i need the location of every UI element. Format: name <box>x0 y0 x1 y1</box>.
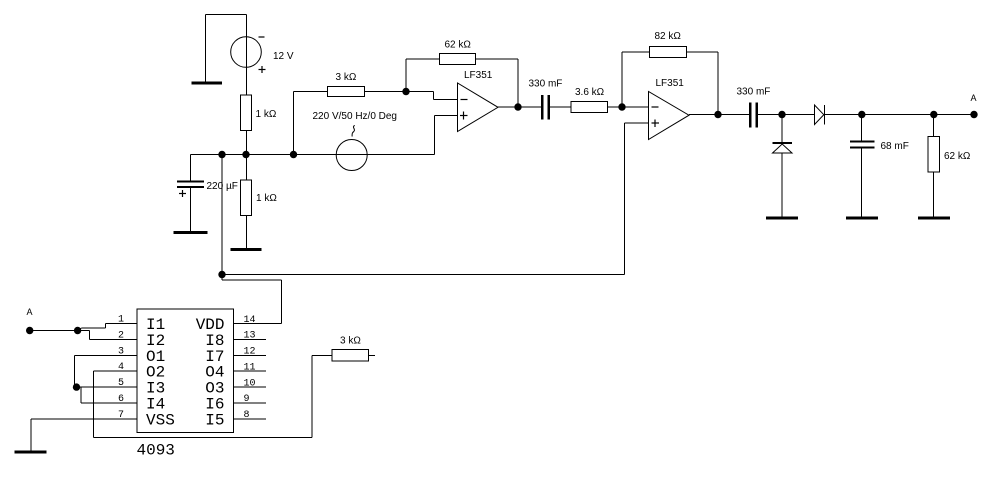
wire up from main node to 3k resistor <box>294 92 328 155</box>
svg-text:62 kΩ: 62 kΩ <box>445 40 472 51</box>
zener D1 cathode bar <box>773 142 793 144</box>
op-amp U2 LF351 triangle <box>649 92 690 140</box>
wire R7 bottom leg <box>933 172 935 217</box>
wire feedback2 right-down to output <box>687 52 719 115</box>
wire C3 to diode <box>758 114 815 116</box>
node N4 dot <box>714 111 721 118</box>
pin stub 12 <box>234 354 267 356</box>
ground G3 <box>231 248 262 251</box>
node A terminal dot <box>970 111 977 118</box>
ground G8 <box>15 451 47 454</box>
resistor R3 3k box <box>328 87 365 97</box>
svg-text:12 V: 12 V <box>273 51 294 62</box>
svg-text:I5: I5 <box>205 411 224 429</box>
svg-text:9: 9 <box>244 394 250 405</box>
svg-text:5: 5 <box>118 378 124 389</box>
pin stub 9 <box>234 402 267 404</box>
wire feedback1 right-down to output <box>476 59 519 107</box>
node dot lower junction <box>218 271 225 278</box>
svg-text:2: 2 <box>118 330 124 341</box>
C1 plus sign <box>179 190 186 197</box>
wire junction to pin1 <box>78 324 137 331</box>
ground G6 <box>846 217 878 220</box>
svg-text:10: 10 <box>244 378 256 389</box>
svg-text:LF351: LF351 <box>656 78 685 89</box>
svg-text:3.6 kΩ: 3.6 kΩ <box>575 87 605 98</box>
svg-text:4093: 4093 <box>137 442 175 460</box>
wire C2 to R5 <box>550 106 571 108</box>
wire from top into 12V source and down to R1 <box>246 15 248 96</box>
wire zener to ground <box>781 153 783 217</box>
svg-text:6: 6 <box>118 394 124 405</box>
node dot3 <box>73 383 80 390</box>
wire main to R2 <box>246 155 248 181</box>
node dot main-left <box>218 151 225 158</box>
wire pin7 to ground <box>31 419 137 451</box>
dc source V1 circle <box>231 37 262 68</box>
wire vertical from main node down <box>221 155 223 275</box>
op-amp U1 LF351 triangle <box>458 83 499 132</box>
wire C1 bottom leg <box>190 188 192 231</box>
ground G5 <box>766 217 798 220</box>
IC U3 4093 box <box>137 309 234 433</box>
svg-text:3 kΩ: 3 kΩ <box>336 72 357 83</box>
pin stub 13 <box>234 338 267 340</box>
capacitor C2 330mF plates <box>541 95 550 120</box>
wire main to op-amp plus input <box>435 116 458 155</box>
node dot main-right <box>290 151 297 158</box>
svg-text:330 mF: 330 mF <box>529 79 563 90</box>
node dot main-mid <box>242 151 249 158</box>
wire vertical down-left to ground <box>205 15 207 82</box>
wire dot3 to pin6 <box>81 387 137 403</box>
wire U2 output <box>689 114 749 116</box>
U2 plus sign <box>652 120 660 128</box>
zener D1 triangle <box>773 144 793 153</box>
wire long feedback from node A2 region to U2 plus input <box>222 123 649 275</box>
svg-text:VSS: VSS <box>146 411 175 429</box>
svg-text:62 kΩ: 62 kΩ <box>944 151 971 162</box>
wire U1 output <box>498 106 541 108</box>
svg-text:3: 3 <box>118 346 124 357</box>
svg-text:8: 8 <box>244 410 250 421</box>
resistor R6 82k box <box>650 47 687 58</box>
wire R7 top leg <box>933 115 935 137</box>
wire top horizontal from battery top to ground branch <box>206 14 247 16</box>
pin stub 10 <box>234 386 267 388</box>
pin stub 8 <box>234 418 267 420</box>
ac source V2 circle <box>336 140 367 171</box>
ground G1 <box>192 82 223 85</box>
svg-text:A: A <box>971 93 977 103</box>
wire capacitor C1 top leg <box>190 155 192 181</box>
svg-text:12: 12 <box>244 347 256 358</box>
svg-text:1 kΩ: 1 kΩ <box>256 193 277 204</box>
svg-text:4: 4 <box>118 362 124 373</box>
ground G2 <box>174 231 208 234</box>
ground G7 <box>918 217 950 220</box>
wire R1 bottom to main node <box>246 131 248 155</box>
resistor R7 62k box <box>928 137 940 173</box>
svg-text:14: 14 <box>244 315 256 326</box>
wire C4 leg <box>861 115 863 141</box>
wire pin14 up to lower junction <box>222 275 282 324</box>
resistor R1 1k box <box>241 95 252 131</box>
U1 plus sign <box>460 112 468 120</box>
wire R2 bottom <box>246 216 248 249</box>
node N6 dot <box>858 111 865 118</box>
diode D2 triangle <box>815 105 824 125</box>
resistor R2 1k box <box>241 180 252 216</box>
svg-text:68 mF: 68 mF <box>881 141 909 152</box>
node dot junction bottom <box>74 327 81 334</box>
svg-text:3 kΩ: 3 kΩ <box>340 336 361 347</box>
node N1 dot <box>402 88 409 95</box>
wire R3 to node N1 <box>365 91 407 93</box>
wire junction to pin2 <box>78 331 137 340</box>
resistor R4 62k box <box>440 54 476 65</box>
svg-text:220 V/50 Hz/0 Deg: 220 V/50 Hz/0 Deg <box>313 111 398 122</box>
capacitor C1 220uF plates <box>177 181 204 189</box>
pin stub 11 <box>234 370 267 372</box>
svg-text:7: 7 <box>118 410 124 421</box>
svg-text:1: 1 <box>118 315 124 326</box>
svg-text:11: 11 <box>244 362 256 373</box>
resistor R8 3k box <box>332 350 369 362</box>
svg-text:A: A <box>27 307 33 317</box>
diode D2 cathode bar <box>824 105 826 125</box>
svg-text:82 kΩ: 82 kΩ <box>655 31 682 42</box>
wire feedback1 up-left <box>406 59 440 92</box>
wire R5 to U2 minus <box>608 106 649 108</box>
wire A2 to junction <box>30 330 78 332</box>
wire feedback2 up <box>622 52 650 107</box>
U2 minus sign <box>652 106 659 108</box>
ac source squiggle <box>352 126 355 137</box>
wire pin4 down around to 3k resistor <box>94 355 333 437</box>
wire C4 to ground <box>861 149 863 217</box>
V1 plus sign <box>259 66 266 73</box>
resistor R5 3.6k box <box>571 102 608 113</box>
U1 minus sign <box>461 99 468 101</box>
wire R8 right stub <box>369 354 376 356</box>
node N3 dot <box>618 103 625 110</box>
node N7 dot <box>930 111 937 118</box>
svg-text:330 mF: 330 mF <box>737 87 771 98</box>
wire dot3 to pin5 <box>77 386 138 388</box>
node N2 dot <box>514 103 521 110</box>
wire N1 to op-amp minus input <box>406 92 458 100</box>
node A2 terminal dot bottom left <box>26 327 33 334</box>
svg-text:LF351: LF351 <box>464 70 493 81</box>
capacitor C3 330mF plates <box>749 103 758 128</box>
wire pin3 to node dot3 <box>75 355 138 387</box>
svg-text:13: 13 <box>244 331 256 342</box>
capacitor C4 68mF plates <box>850 141 875 149</box>
svg-text:1 kΩ: 1 kΩ <box>256 109 277 120</box>
wire D2 to A node <box>825 114 975 116</box>
V1 minus sign <box>259 36 265 38</box>
node N5 dot <box>778 111 785 118</box>
main horizontal wire <box>191 154 435 156</box>
wire zener leg down <box>781 115 783 143</box>
